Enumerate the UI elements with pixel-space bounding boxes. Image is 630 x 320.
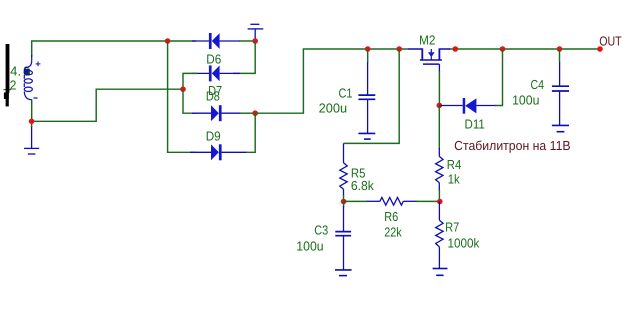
svg-text:D6: D6 <box>206 51 221 66</box>
junction (rail / R5 branch) <box>396 46 402 52</box>
svg-text:R4: R4 <box>447 157 462 172</box>
svg-text:200u: 200u <box>319 100 348 115</box>
ground (C1) <box>358 133 375 139</box>
wire (D6 right to node B) <box>239 40 255 42</box>
wire (node A down to D9 row) <box>168 41 196 152</box>
svg-text:D11: D11 <box>465 116 485 131</box>
wire (D7 left to node C) <box>183 73 197 89</box>
junction (rail end at OUT) <box>597 46 603 52</box>
wire (winding bottom to junction) <box>31 101 33 121</box>
wire (node E down to R4) <box>438 105 440 149</box>
svg-text:2: 2 <box>10 77 17 92</box>
wire (D11 right up to rail) <box>495 49 503 106</box>
label 4.6 (transformer value line 1) <box>10 64 30 79</box>
inverted ground (top rail) <box>248 24 264 41</box>
transformer winding T1 secondary <box>24 55 32 101</box>
ground (C3) <box>335 270 352 276</box>
wire (R4 bottom to node G) <box>438 190 440 202</box>
resistor R7 <box>436 202 443 269</box>
wire (junction stub down) <box>31 121 33 127</box>
svg-text:22k: 22k <box>384 224 402 239</box>
wire (node B down and left to D7) <box>233 41 255 73</box>
junction node E (gate / D11 / R4) <box>437 103 443 109</box>
svg-text:6.8k: 6.8k <box>351 178 374 193</box>
diode D9 (fourth row, pointing right) <box>190 144 247 160</box>
ground (R7) <box>433 269 448 276</box>
diode D7 (second row, pointing left) <box>192 65 240 81</box>
junction node C <box>180 86 186 92</box>
svg-text:D8: D8 <box>206 89 220 104</box>
svg-text:100u: 100u <box>296 238 323 253</box>
junction (rail / C4) <box>557 46 563 52</box>
wire (transformer top to top rail corner) <box>32 41 196 57</box>
svg-text:Стабилитрон на 11В: Стабилитрон на 11В <box>454 138 570 153</box>
wire (node C down to D8) <box>183 89 196 113</box>
junction (rail / mosfet drain) <box>453 46 459 52</box>
svg-text:R7: R7 <box>445 219 459 234</box>
wire (R5 bottom to node F) <box>343 195 345 202</box>
diode D11 (pointing left) <box>439 98 496 114</box>
wire (gate lead down to node E) <box>438 64 440 71</box>
svg-text:D9: D9 <box>206 129 221 144</box>
svg-text:OUT: OUT <box>599 33 622 48</box>
mosfet M2 <box>408 48 450 64</box>
wire (top rail right of mosfet, to OUT) <box>449 48 600 50</box>
resistor R5 <box>340 143 347 196</box>
wire (R6 to node G) <box>416 200 440 202</box>
capacitor C4 <box>552 49 569 125</box>
junction node A (top left) <box>165 38 171 44</box>
capacitor C1 <box>358 49 375 133</box>
svg-text:C4: C4 <box>531 77 545 92</box>
polarity mark minus <box>34 97 38 99</box>
svg-text:1k: 1k <box>448 171 460 186</box>
diode D8 (third row, pointing right) <box>192 105 241 121</box>
svg-text:M2: M2 <box>419 33 436 48</box>
ground (transformer) <box>24 126 39 154</box>
transformer core (black scribble) <box>4 44 9 106</box>
svg-text:R6: R6 <box>384 209 398 224</box>
wire (R5 branch from rail) <box>344 49 400 143</box>
svg-text:100u: 100u <box>512 92 539 107</box>
polarity mark plus <box>36 62 41 67</box>
wire (node D to top rail) <box>255 49 408 113</box>
junction (rail / D11 branch) <box>500 46 506 52</box>
junction (transformer bottom) <box>29 119 35 125</box>
resistor R4 <box>436 148 443 191</box>
junction (rail / C1) <box>365 46 371 52</box>
svg-text:C1: C1 <box>339 86 353 101</box>
capacitor C3 <box>335 202 351 270</box>
junction node B <box>252 38 258 44</box>
wire (stub at left edge under core) <box>4 89 12 91</box>
wire (transformer bottom run to mid node) <box>32 89 183 121</box>
junction node G (R6/R4/R7) <box>437 199 443 205</box>
wire (D8 right to node D) <box>240 112 255 114</box>
ground (C4) <box>552 125 569 131</box>
wire (D9 right up to node D) <box>246 113 255 152</box>
svg-text:1000k: 1000k <box>448 235 480 250</box>
wire (node F to R6) <box>344 200 367 202</box>
junction node D <box>252 110 258 116</box>
junction node F (R5/R6/C3) <box>341 199 347 205</box>
svg-text:C3: C3 <box>314 223 328 238</box>
diode D6 (top, pointing left) <box>192 33 240 49</box>
resistor R6 <box>366 197 417 205</box>
